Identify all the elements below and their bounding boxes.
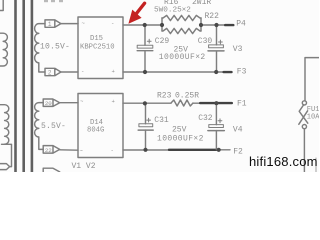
svg-text:10000UF×2: 10000UF×2 — [157, 134, 204, 143]
bridge rectifier D14 — [78, 94, 123, 158]
svg-text:10A: 10A — [307, 113, 319, 121]
capacitor C30 — [216, 25, 218, 72]
connector bar P4 — [224, 24, 235, 26]
secondary winding 10.5V — [35, 24, 45, 72]
svg-text:F1: F1 — [237, 99, 247, 108]
svg-text:22: 22 — [45, 147, 52, 154]
fuse FU1 — [299, 101, 308, 129]
svg-text:2: 2 — [48, 70, 52, 77]
svg-text:2W1R: 2W1R — [192, 0, 211, 7]
svg-text:-: - — [81, 68, 84, 75]
plus mark C31 — [147, 118, 151, 122]
terminal tag 22 — [43, 146, 60, 154]
secondary winding 5.5V — [35, 103, 44, 150]
connector bar F2 — [168, 149, 219, 151]
resistor pair R16 5W0.25x2 — [162, 15, 201, 33]
plus mark C30 — [219, 40, 223, 44]
svg-text:F2: F2 — [233, 147, 243, 156]
primary winding L1a — [0, 33, 7, 66]
wire tag20 to D14 — [60, 102, 78, 104]
wire bottom rail from D14 — [123, 149, 230, 151]
svg-text:C29: C29 — [155, 37, 170, 46]
connector bar F1 — [199, 102, 233, 104]
junction dots upper — [143, 23, 219, 74]
svg-text:C31: C31 — [154, 116, 169, 125]
svg-text:R23: R23 — [157, 91, 172, 100]
svg-text:804G: 804G — [87, 127, 104, 135]
svg-text:10.5V-: 10.5V- — [40, 42, 70, 51]
wire tag2 to D15 — [61, 71, 78, 73]
svg-text:-: - — [111, 147, 114, 154]
resistor R23 — [171, 100, 193, 106]
node: top rail from D15 — [123, 24, 224, 26]
primary winding L1b — [0, 105, 9, 144]
terminal tag 2 — [45, 68, 61, 75]
svg-text:D15: D15 — [90, 35, 103, 43]
wire below fuse — [303, 129, 305, 172]
svg-text:V3: V3 — [233, 45, 243, 54]
plus mark C32 — [218, 119, 222, 123]
svg-text:P4: P4 — [236, 19, 246, 28]
svg-text:KBPC2510: KBPC2510 — [80, 44, 115, 52]
wire bottom rail from D15 — [123, 71, 223, 73]
wire bottom right edge — [315, 158, 317, 172]
svg-text:10000UF×2: 10000UF×2 — [159, 53, 206, 62]
text remnant top edge (cut) — [44, 0, 63, 2]
junction dots lower — [143, 101, 221, 152]
svg-text:~: ~ — [80, 147, 84, 154]
wire tag1 to D15 — [61, 23, 78, 25]
svg-text:F3: F3 — [237, 67, 247, 76]
wire tag22 to D14 — [60, 149, 78, 151]
svg-text:C32: C32 — [198, 114, 213, 123]
plus mark C29 — [147, 39, 151, 43]
svg-text:+: + — [112, 68, 116, 75]
transformer core — [16, 0, 32, 172]
wire (top-left primary stub, cut winding) — [0, 0, 3, 11]
svg-text:~: ~ — [82, 20, 86, 27]
red annotation arrow — [128, 10, 141, 24]
svg-text:hifi168.com: hifi168.com — [249, 154, 318, 169]
svg-text:V1 V2: V1 V2 — [72, 162, 96, 171]
svg-text:0.25R: 0.25R — [175, 91, 199, 100]
terminal tag (left edge, cut) — [0, 164, 10, 170]
wire right feed to fuse — [305, 58, 319, 101]
capacitor C31 — [145, 103, 147, 149]
svg-text:~: ~ — [80, 98, 84, 105]
svg-text:-: - — [111, 19, 114, 26]
svg-text:C30: C30 — [198, 37, 213, 46]
svg-text:25V: 25V — [172, 125, 187, 134]
bridge rectifier D15 — [78, 17, 123, 79]
svg-text:V4: V4 — [233, 126, 243, 135]
wire top rail from D14 — [123, 102, 199, 104]
terminal tag 1 — [45, 20, 61, 27]
capacitor C32 — [215, 103, 217, 149]
terminal tag bottom (cut) — [43, 168, 60, 175]
connector bar F3 — [222, 71, 232, 73]
svg-text:5.5V-: 5.5V- — [41, 122, 66, 131]
wire (primary bottom return) — [2, 144, 12, 166]
svg-text:1: 1 — [48, 21, 52, 28]
svg-text:R22: R22 — [205, 12, 220, 21]
terminal tag 20 — [43, 99, 60, 106]
svg-text:20: 20 — [45, 100, 52, 107]
svg-text:+: + — [112, 98, 116, 105]
svg-text:5W0.25×2: 5W0.25×2 — [154, 7, 191, 15]
capacitor C29 — [144, 25, 146, 72]
